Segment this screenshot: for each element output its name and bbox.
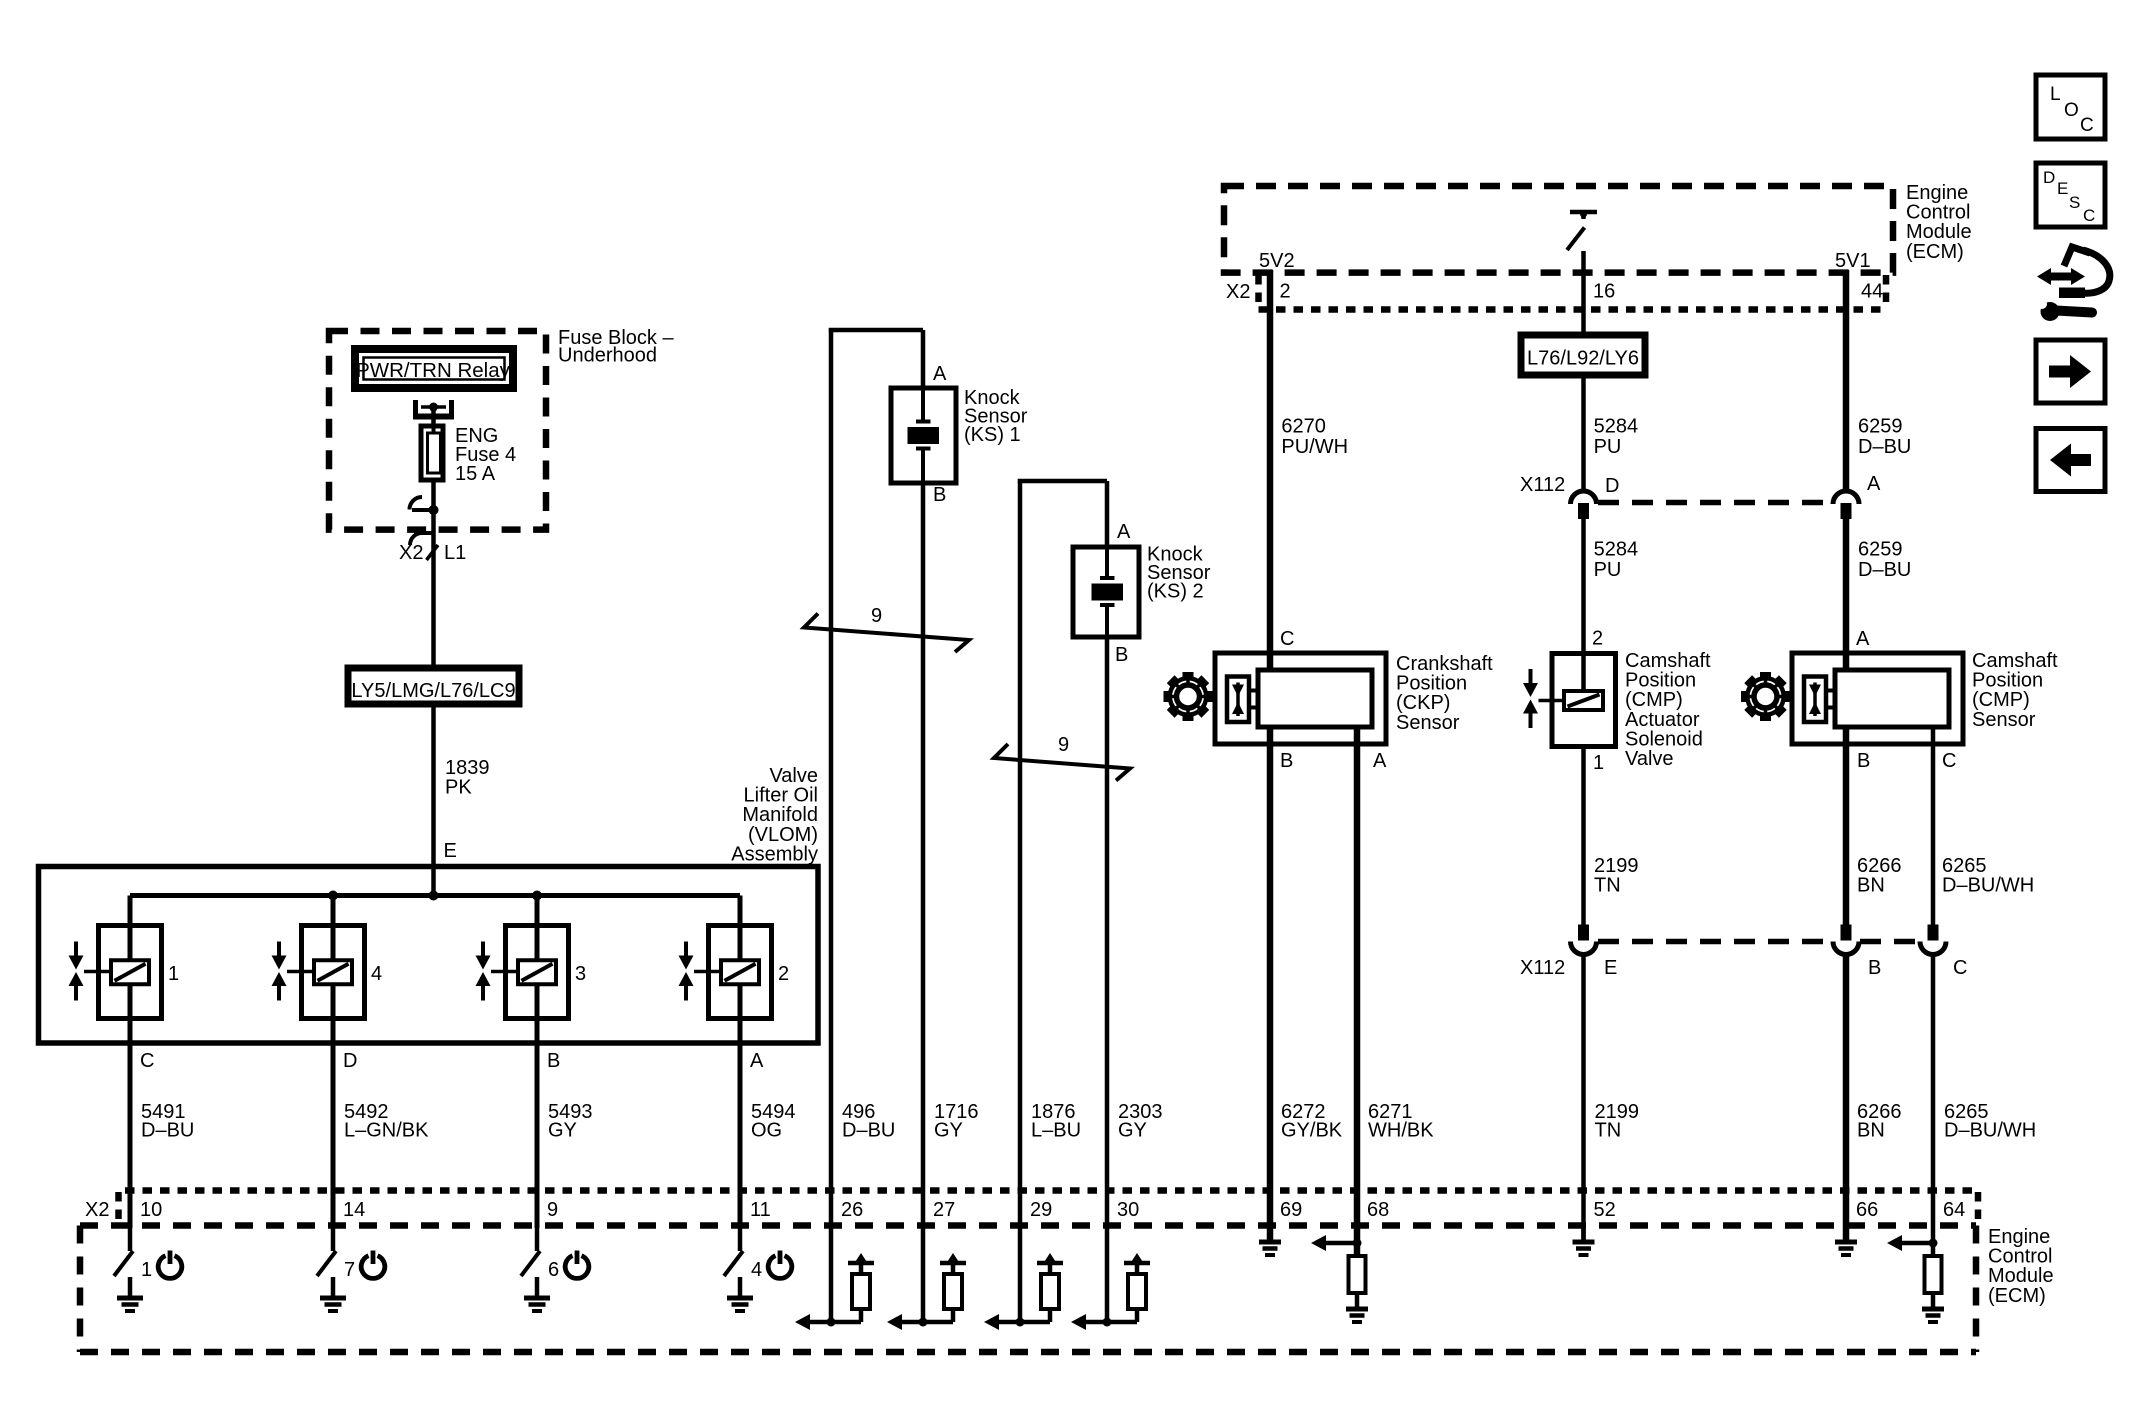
wire 6259 D-BU pin 44 to X112 A (1843, 270, 1850, 491)
label Camshaft Position (CMP) Sensor (1972, 650, 2058, 731)
wire CMP C 6265 to X112 C (1931, 727, 1936, 925)
svg-text:7: 7 (344, 1259, 355, 1281)
label 1839 PK (445, 757, 490, 799)
svg-text:2: 2 (1592, 628, 1603, 650)
svg-text:PU: PU (1594, 559, 1622, 581)
crankshaft position CKP sensor (1215, 653, 1386, 744)
svg-text:BN: BN (1857, 1120, 1885, 1142)
svg-text:C: C (1953, 957, 1967, 979)
valve symbol solenoid 1 (69, 942, 112, 1001)
svg-text:A: A (750, 1050, 764, 1072)
ECM driver switch 7 (317, 1228, 346, 1311)
svg-text:66: 66 (1856, 1199, 1878, 1221)
wire 6259 D-BU X112 A to CMP sensor (1843, 519, 1850, 670)
ECM pin 68 arrow resistor ground (1311, 1228, 1368, 1322)
icon LOC box (2036, 75, 2105, 139)
label 6259 D-BU lower (1858, 539, 1911, 582)
svg-text:D–BU/WH: D–BU/WH (1944, 1120, 2036, 1142)
knock sensor KS1 (891, 388, 956, 483)
svg-text:D–BU: D–BU (141, 1120, 194, 1142)
svg-text:LY5/LMG/L76/LC9: LY5/LMG/L76/LC9 (351, 680, 515, 702)
svg-text:A: A (933, 363, 947, 385)
connector pin slash X2/L1 (427, 545, 439, 560)
svg-text:X2: X2 (399, 542, 423, 564)
svg-text:C: C (1942, 750, 1956, 772)
gear symbol CKP (1164, 672, 1213, 721)
wire label 6266 BN lower (1857, 1101, 1902, 1142)
engine code box LY5/LMG/L76/LC9 (348, 668, 519, 704)
svg-text:A: A (1373, 750, 1387, 772)
svg-text:6270: 6270 (1281, 416, 1326, 438)
svg-text:B: B (1280, 750, 1293, 772)
label 5284 PU lower (1594, 539, 1639, 582)
wire KS1 loop (829, 330, 923, 1228)
svg-text:15 A: 15 A (455, 463, 496, 485)
svg-text:Sensor: Sensor (1972, 709, 2036, 731)
valve symbol CMP actuator (1523, 669, 1564, 728)
junction bus at solenoid 3 (532, 891, 542, 901)
svg-text:GY: GY (1118, 1120, 1147, 1142)
label 6266 BN (1857, 855, 1902, 897)
icon arrow left box (2036, 429, 2105, 492)
ECM input resistor at x1107 (1071, 1228, 1150, 1330)
svg-text:TN: TN (1594, 875, 1621, 897)
svg-text:L–GN/BK: L–GN/BK (344, 1120, 429, 1142)
wire label 6272 GY/BK lower (1281, 1101, 1343, 1142)
svg-text:E: E (2057, 179, 2068, 198)
svg-text:(ECM): (ECM) (1906, 241, 1964, 263)
svg-text:4: 4 (371, 963, 382, 985)
connector X112 pin B (1833, 925, 1859, 955)
ECM driver switch 4 (724, 1228, 753, 1311)
power symbol driver 1 (158, 1251, 182, 1279)
svg-text:D–BU: D–BU (842, 1120, 895, 1142)
svg-text:D: D (2043, 168, 2055, 187)
svg-text:4: 4 (751, 1259, 762, 1281)
svg-text:D: D (1605, 475, 1619, 497)
wire label 1876 L–BU lower (1031, 1101, 1081, 1142)
svg-text:9: 9 (1058, 734, 1069, 756)
svg-text:2: 2 (1280, 281, 1291, 303)
solenoid valve 4 (VLOM) (302, 896, 365, 1044)
wire label 6271 WH/BK lower (1368, 1101, 1434, 1142)
svg-text:B: B (547, 1050, 560, 1072)
gear symbol CMP (1741, 672, 1790, 721)
ECM driver switch 6 (521, 1228, 550, 1311)
svg-text:C: C (2083, 206, 2095, 225)
svg-text:30: 30 (1117, 1199, 1139, 1221)
svg-text:A: A (1117, 521, 1131, 543)
twisted pair marker 9 KS1 (804, 605, 969, 652)
junction bus feed E (429, 891, 439, 901)
label 6259 D-BU upper (1858, 416, 1911, 459)
svg-text:68: 68 (1367, 1199, 1389, 1221)
wire 2199 TN CMP actuator to X112 E (1581, 747, 1586, 926)
svg-text:44: 44 (1861, 281, 1883, 303)
label 5284 PU upper (1594, 416, 1639, 459)
wire 2199 TN X112 E to ECM 52 (1581, 955, 1586, 1240)
label Engine Control Module (ECM) top (1906, 182, 1972, 263)
svg-text:B: B (1857, 750, 1870, 772)
svg-text:Valve: Valve (1625, 748, 1674, 770)
wire label 6265 D–BU/WH lower (1944, 1101, 2036, 1142)
wire 5284 PU to X112 D (1581, 375, 1586, 491)
connector X112 pin A (1833, 491, 1859, 519)
wire label 1716 GY lower (934, 1101, 979, 1142)
wire 5284 PU X112 D to CMP actuator (1581, 519, 1586, 691)
Engine Control Module (ECM) top dashed box (1224, 186, 1893, 273)
label ENG Fuse 4 15 A (455, 425, 516, 485)
svg-text:(ECM): (ECM) (1988, 1285, 2046, 1307)
wire VLOM pin A to ECM (738, 1043, 743, 1228)
svg-text:B: B (1868, 957, 1881, 979)
label Engine Control Module (ECM) bottom (1988, 1226, 2054, 1307)
svg-text:52: 52 (1594, 1199, 1616, 1221)
detour dashed X112 E to B (1598, 939, 1832, 945)
fuse block - underhood dashed box (329, 331, 546, 530)
ECM input resistor at x923 (887, 1228, 966, 1330)
label Camshaft Position (CMP) Actuator Solenoid Valve (1625, 650, 1711, 770)
svg-text:L: L (2050, 84, 2061, 105)
svg-text:TN: TN (1595, 1120, 1622, 1142)
ground ECM pin 69 (1259, 1228, 1281, 1255)
svg-text:5284: 5284 (1594, 539, 1639, 561)
svg-text:9: 9 (547, 1199, 558, 1221)
icon DESC box (2036, 163, 2105, 227)
svg-text:GY: GY (934, 1120, 963, 1142)
ECM bottom connector dotted line X2 (125, 1187, 1972, 1194)
solenoid valve 3 (VLOM) (506, 896, 569, 1044)
Engine Control Module ECM bottom dashed box (80, 1226, 1976, 1353)
connector X112 pin D (1571, 491, 1597, 519)
camshaft position CMP actuator solenoid valve (1552, 654, 1616, 747)
ground ECM pin 66 (1835, 1228, 1857, 1255)
wire KS2 B to ECM 30 (1105, 637, 1110, 1228)
wire VLOM pin C to ECM (128, 1043, 133, 1228)
ECM driver switch 1 (114, 1228, 143, 1311)
svg-text:PWR/TRN Relay: PWR/TRN Relay (356, 359, 511, 382)
svg-text:64: 64 (1943, 1199, 1965, 1221)
svg-text:C: C (1280, 628, 1294, 650)
svg-text:E: E (1604, 957, 1617, 979)
wire 6266 BN X112 B to ECM 66 (1843, 955, 1850, 1240)
ECM pin 64 arrow resistor ground (1887, 1228, 1944, 1322)
wire 6270 PU/WH 5V2 to CKP (1267, 270, 1274, 670)
label Fuse Block - Underhood (558, 327, 674, 367)
svg-text:D–BU: D–BU (1858, 436, 1911, 458)
svg-text:26: 26 (841, 1199, 863, 1221)
power symbol driver 7 (361, 1251, 385, 1279)
svg-text:C: C (2080, 115, 2094, 136)
engine code box L76/L92/LY6 (1521, 335, 1645, 375)
junction fuse block terminal (410, 497, 439, 515)
wire label 5493 GY (548, 1101, 593, 1142)
svg-text:27: 27 (933, 1199, 955, 1221)
label Knock Sensor (KS) 2 (1147, 544, 1211, 603)
valve symbol solenoid 4 (272, 942, 315, 1001)
svg-text:X2: X2 (1226, 281, 1250, 303)
wire CKP B 6272 to ECM 69 (1267, 727, 1274, 1240)
svg-text:Underhood: Underhood (558, 345, 657, 367)
svg-text:11: 11 (750, 1199, 771, 1221)
dotted separator X2 bottom left (115, 1192, 122, 1224)
wire X2 L1 to engine harness (431, 510, 436, 668)
wire VLOM pin D to ECM (331, 1043, 336, 1228)
detour dashed X112 B to C (1860, 939, 1919, 945)
dotted separator X2 top (1255, 275, 1262, 309)
label 6270 PU/WH (1281, 416, 1348, 459)
wire relay to fuse (431, 407, 436, 426)
svg-text:2: 2 (778, 963, 789, 985)
svg-text:X112: X112 (1520, 474, 1565, 496)
svg-text:GY: GY (548, 1120, 577, 1142)
relay contact terminal bracket (413, 400, 454, 420)
svg-text:S: S (2069, 193, 2080, 212)
svg-text:14: 14 (343, 1199, 365, 1221)
svg-text:GY/BK: GY/BK (1281, 1120, 1343, 1142)
svg-text:(KS) 2: (KS) 2 (1147, 580, 1204, 602)
svg-text:PU/WH: PU/WH (1281, 436, 1348, 458)
svg-text:5284: 5284 (1594, 416, 1639, 438)
valve symbol solenoid 2 (679, 942, 722, 1001)
ECM input resistor at x1020 (984, 1228, 1063, 1330)
VLOM internal bus wire (130, 893, 740, 898)
camshaft position CMP sensor (1792, 653, 1963, 744)
dotted separator bottom right (1975, 1192, 1982, 1224)
label 2199 TN (1594, 855, 1639, 897)
svg-text:1: 1 (1593, 752, 1604, 774)
svg-text:L1: L1 (444, 542, 466, 564)
dotted separator right top (1883, 275, 1890, 309)
label Knock Sensor (KS) 1 (964, 387, 1028, 446)
connector terminal hook below (410, 533, 434, 545)
wire label 5494 OG (751, 1101, 796, 1142)
svg-text:Sensor: Sensor (1396, 712, 1460, 734)
wire 1839 PK to VLOM (431, 704, 436, 896)
ground ECM pin 52 (1573, 1228, 1595, 1255)
svg-text:5V2: 5V2 (1259, 250, 1295, 272)
power symbol driver 6 (565, 1251, 589, 1279)
svg-text:A: A (1856, 628, 1870, 650)
valve symbol solenoid 3 (476, 942, 519, 1001)
svg-text:D–BU/WH: D–BU/WH (1942, 875, 2034, 897)
svg-text:1: 1 (141, 1259, 152, 1281)
relay K PWR/TRN Relay box (355, 349, 513, 388)
svg-text:B: B (933, 484, 946, 506)
connector X112 pin E (1571, 925, 1597, 955)
svg-text:X112: X112 (1520, 957, 1565, 979)
svg-text:6259: 6259 (1858, 416, 1903, 438)
svg-text:E: E (444, 840, 457, 862)
power symbol driver 4 (768, 1251, 792, 1279)
svg-text:29: 29 (1030, 1199, 1052, 1221)
label Crankshaft Position (CKP) Sensor (1396, 653, 1493, 734)
wire label 2199 TN lower (1595, 1101, 1640, 1142)
wire label 2303 GY lower (1118, 1101, 1163, 1142)
svg-text:D: D (343, 1050, 357, 1072)
svg-text:Assembly: Assembly (731, 843, 818, 865)
svg-text:9: 9 (871, 605, 882, 627)
svg-text:69: 69 (1280, 1199, 1302, 1221)
wire KS1 B to ECM 27 (921, 483, 926, 1228)
twisted pair marker 9 KS2 (994, 734, 1130, 781)
svg-text:OG: OG (751, 1120, 782, 1142)
label Valve Lifter Oil Manifold (VLOM) Assembly (731, 765, 818, 865)
wire label 5491 D–BU (141, 1101, 194, 1142)
svg-text:L76/L92/LY6: L76/L92/LY6 (1527, 348, 1639, 370)
svg-text:X2: X2 (85, 1199, 109, 1221)
wire CKP A 6271 to ECM 68 (1354, 727, 1361, 1228)
ECM internal switch driver (1567, 211, 1597, 251)
VLOM assembly box (39, 867, 819, 1044)
wire fuse to X2 connector (431, 480, 436, 510)
wire label 496 D–BU lower (842, 1101, 895, 1142)
wire 6265 X112 C to ECM 64 (1931, 955, 1936, 1228)
svg-text:6: 6 (548, 1259, 559, 1281)
svg-text:O: O (2064, 100, 2079, 121)
svg-text:16: 16 (1593, 281, 1615, 303)
svg-text:3: 3 (575, 963, 586, 985)
svg-text:1: 1 (168, 963, 179, 985)
wire KS2 loop (1018, 481, 1107, 1228)
detour dashed X112 D to A (1598, 500, 1832, 506)
icon arrow right box (2036, 340, 2105, 403)
svg-text:C: C (140, 1050, 154, 1072)
fuse F ENG Fuse 4 15A (421, 426, 443, 480)
svg-text:5V1: 5V1 (1835, 250, 1871, 272)
svg-text:A: A (1867, 473, 1881, 495)
solenoid valve 1 (VLOM) (99, 896, 162, 1044)
knock sensor KS2 (1073, 547, 1139, 637)
wire CMP B 6266 to X112 B (1843, 727, 1850, 925)
junction bus at solenoid 4 (328, 891, 338, 901)
wire 5284 PU pin16 to L76 box (1581, 251, 1586, 335)
svg-text:WH/BK: WH/BK (1368, 1120, 1434, 1142)
wire VLOM pin B to ECM (535, 1043, 540, 1228)
svg-text:10: 10 (140, 1199, 162, 1221)
icon wrench with arrows (2037, 247, 2110, 321)
ECM top connector dotted line (1259, 306, 1885, 313)
svg-text:(KS) 1: (KS) 1 (964, 424, 1021, 446)
svg-text:L–BU: L–BU (1031, 1120, 1081, 1142)
solenoid valve 2 (VLOM) (709, 896, 772, 1044)
svg-text:B: B (1115, 644, 1128, 666)
label 6265 D-BU/WH (1942, 855, 2034, 897)
svg-text:BN: BN (1857, 875, 1885, 897)
connector X112 pin C (1920, 925, 1946, 955)
wire label 5492 L–GN/BK (344, 1101, 429, 1142)
svg-text:6259: 6259 (1858, 539, 1903, 561)
svg-text:D–BU: D–BU (1858, 559, 1911, 581)
svg-text:PK: PK (445, 777, 472, 799)
svg-text:PU: PU (1594, 436, 1622, 458)
ECM input resistor at x831 (795, 1228, 874, 1330)
